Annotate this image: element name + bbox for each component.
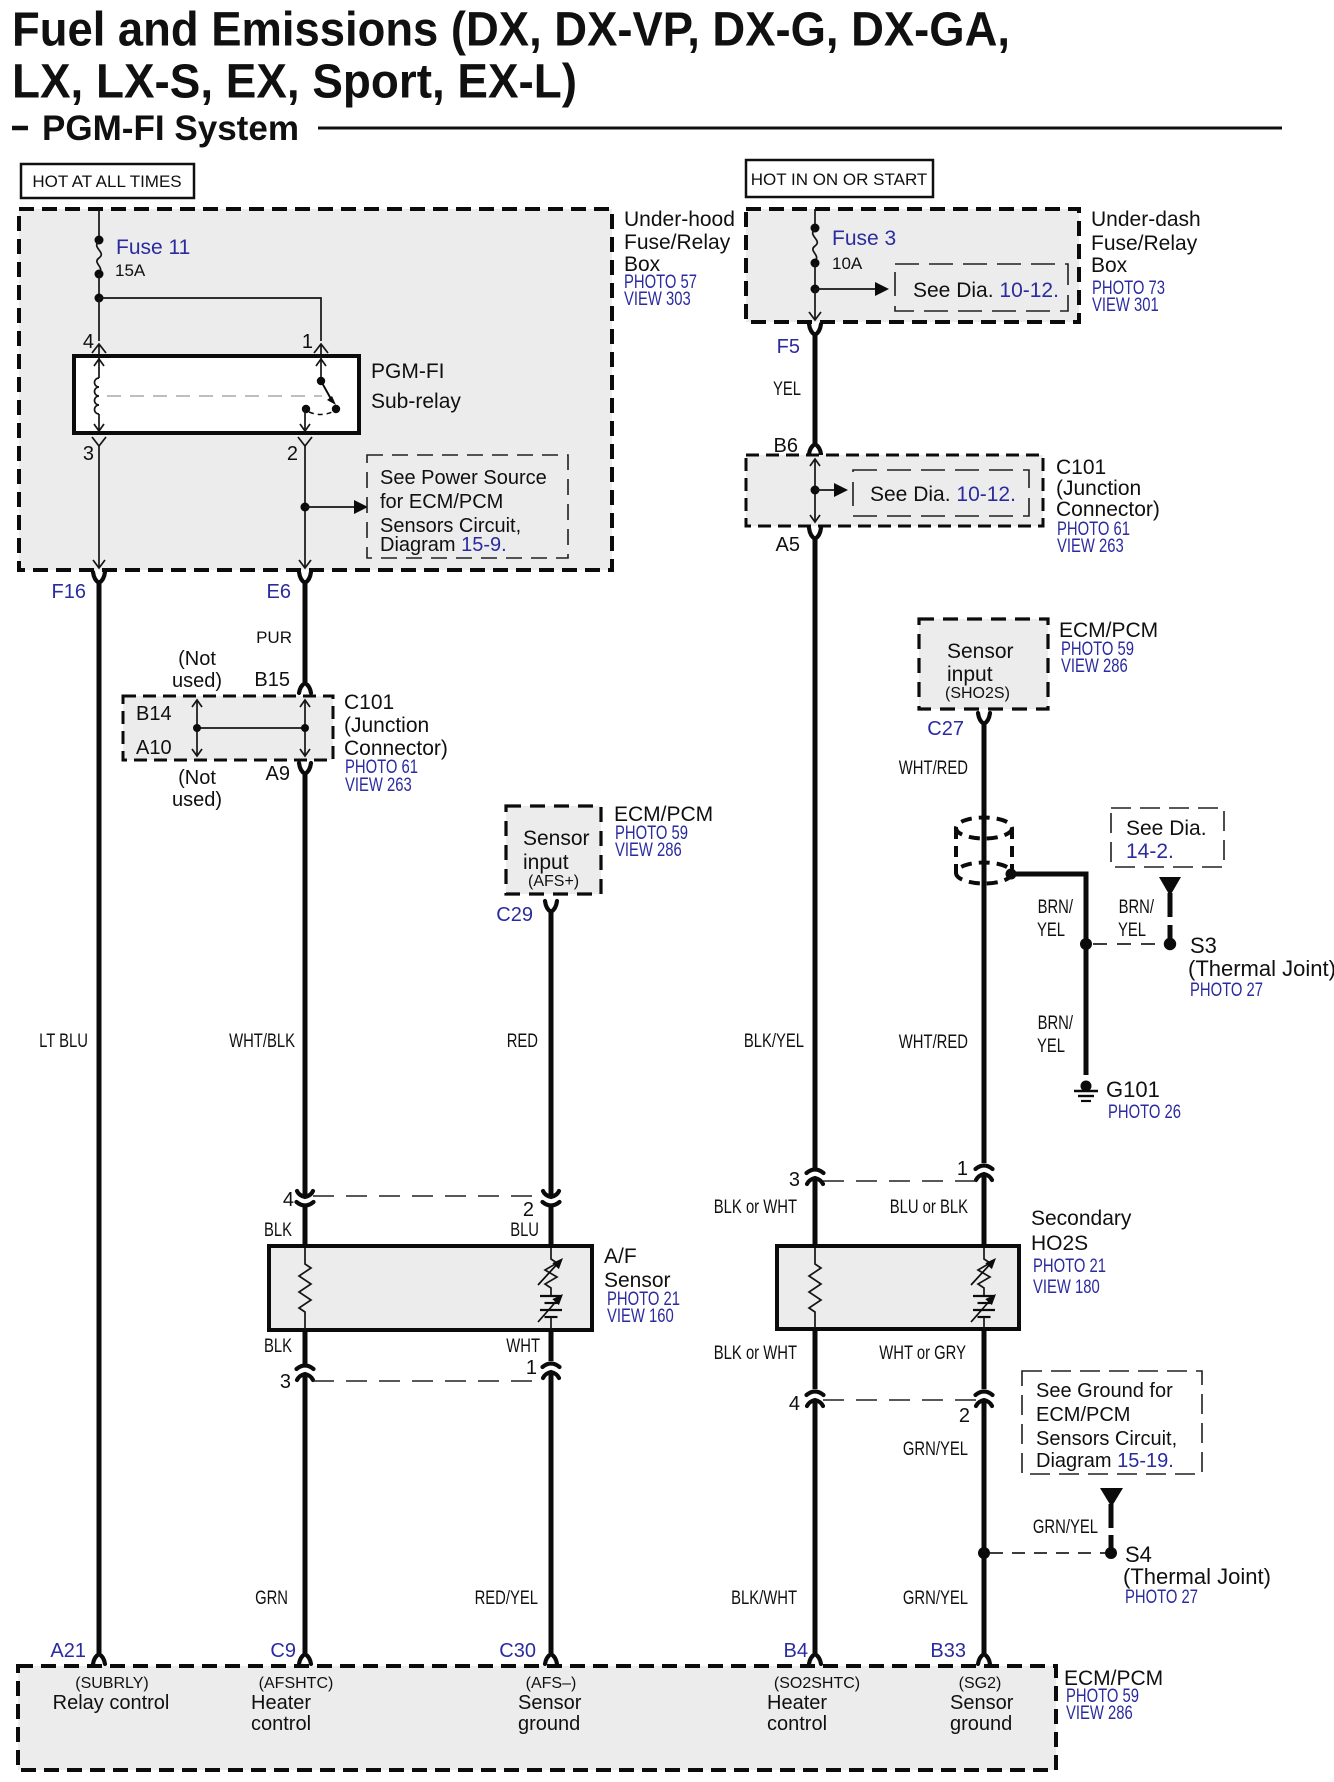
LT BLU label	[39, 1031, 88, 1052]
svg-text:Diagram 15-19.: Diagram 15-19.	[1036, 1450, 1174, 1472]
svg-text:Box: Box	[1091, 254, 1128, 277]
wire A/F pin1 below box	[549, 1330, 554, 1361]
svg-text:BLK or WHT: BLK or WHT	[714, 1343, 798, 1364]
ECM/PCM sensor input AFS+ box	[506, 806, 601, 894]
junction connector C101 left box	[123, 696, 333, 760]
svg-text:(AFS–): (AFS–)	[526, 1675, 577, 1692]
svg-text:3: 3	[280, 1371, 291, 1393]
connector B15 cap	[299, 683, 311, 693]
wire pin4 into A/F box	[303, 1205, 308, 1250]
svg-text:GRN/YEL: GRN/YEL	[1033, 1517, 1098, 1538]
F5 label	[777, 336, 800, 358]
connector A21 cap	[93, 1654, 105, 1664]
connector A9 cap	[299, 763, 311, 774]
svg-text:Fuse/Relay: Fuse/Relay	[624, 231, 731, 254]
relay coil	[94, 356, 104, 431]
svg-text:PHOTO 27: PHOTO 27	[1125, 1587, 1198, 1608]
svg-text:BRN/: BRN/	[1119, 897, 1155, 918]
svg-text:See Power Source: See Power Source	[380, 467, 547, 489]
connector pair A/F pin 3	[297, 1366, 314, 1381]
connector pair HO2S pin 2	[976, 1392, 993, 1407]
C101 right label	[1056, 456, 1160, 557]
wire pin2 into A/F box	[549, 1205, 554, 1250]
node branch to pin 1	[95, 294, 104, 303]
BLK or WHT label top	[714, 1197, 798, 1218]
svg-text:Sensor: Sensor	[950, 1692, 1014, 1714]
arrow to see power source	[305, 500, 368, 514]
pin AFSHTC heater control	[251, 1675, 333, 1735]
svg-text:Sub-relay: Sub-relay	[371, 390, 461, 413]
svg-text:RED/YEL: RED/YEL	[475, 1588, 538, 1609]
node S4 left	[978, 1547, 990, 1559]
A9 label	[266, 763, 290, 785]
wire from box top to fuse 3	[814, 209, 816, 228]
wire C27 to noise capacitor (WHT/RED)	[982, 724, 987, 818]
WHT/RED label lower	[899, 1032, 968, 1053]
wire pin3 to C9 (GRN)	[303, 1375, 308, 1654]
connector A5 cap	[809, 528, 821, 539]
svg-text:B4: B4	[784, 1640, 808, 1662]
connector pair HO2S pin 1	[976, 1166, 993, 1181]
G101 label	[1106, 1077, 1181, 1123]
BLU or BLK label	[890, 1197, 969, 1218]
node fuse3 bottom	[811, 259, 820, 268]
A/F pin 2 label	[523, 1199, 534, 1221]
junction connector C101 right box	[746, 455, 1043, 526]
relay linkage dashed	[107, 395, 322, 397]
A/F sensor box	[269, 1246, 592, 1330]
dashed link pins 4-2	[313, 1195, 543, 1197]
svg-text:WHT/BLK: WHT/BLK	[229, 1031, 295, 1052]
svg-text:See Ground for: See Ground for	[1036, 1380, 1173, 1402]
svg-text:VIEW 286: VIEW 286	[615, 840, 682, 861]
node S4 right	[1105, 1547, 1117, 1559]
S3 stub wire	[1168, 893, 1173, 939]
title line 2	[12, 56, 577, 109]
ECM/PCM AFS+ label	[614, 803, 713, 861]
svg-text:Sensors Circuit,: Sensors Circuit,	[1036, 1428, 1177, 1450]
node see-dia tap	[811, 285, 820, 294]
svg-text:1: 1	[957, 1158, 968, 1180]
svg-text:LX, LX-S, EX, Sport, EX-L): LX, LX-S, EX, Sport, EX-L)	[12, 56, 577, 109]
not used label top	[172, 648, 222, 692]
svg-text:A/F: A/F	[604, 1245, 637, 1268]
svg-text:(Thermal Joint): (Thermal Joint)	[1188, 956, 1334, 981]
svg-text:F16: F16	[52, 581, 86, 603]
pin 2 connector caret	[298, 437, 312, 446]
svg-text:A21: A21	[50, 1640, 86, 1662]
S3 thermal joint dashed link	[1093, 943, 1163, 945]
S4 label	[1123, 1542, 1271, 1608]
see power source note box	[367, 455, 568, 558]
svg-text:1: 1	[526, 1357, 537, 1379]
C29 label	[496, 904, 533, 926]
connector B33 cap	[978, 1654, 990, 1664]
HOT IN ON OR START label box	[746, 160, 933, 197]
svg-text:Secondary: Secondary	[1031, 1207, 1132, 1230]
B15 label	[254, 669, 290, 691]
svg-text:Diagram 15-9.: Diagram 15-9.	[380, 534, 507, 556]
svg-text:G101: G101	[1106, 1077, 1160, 1102]
connector F5 cap	[809, 324, 821, 335]
fuse F3	[813, 229, 818, 261]
pin 3 label	[83, 443, 94, 465]
C9 label	[270, 1640, 296, 1662]
pin AFS- sensor ground	[518, 1675, 582, 1735]
svg-text:C101: C101	[344, 691, 394, 714]
dashed link HO2S pins 3-1	[823, 1180, 976, 1182]
wire branch down to relay pin 4	[98, 298, 100, 341]
svg-text:C30: C30	[499, 1640, 536, 1662]
BLK label pin3	[264, 1336, 292, 1357]
wire through cylinder down to HO2S pin 1	[982, 818, 987, 1163]
ECM/PCM SHO2S label	[1059, 619, 1158, 677]
wire A9 to A/F pin 4 (WHT/BLK)	[303, 774, 308, 1196]
svg-text:BRN/: BRN/	[1038, 1013, 1074, 1034]
BLK/WHT label	[731, 1588, 797, 1609]
dashed link HO2S pins 4-2	[823, 1399, 976, 1401]
svg-text:HO2S: HO2S	[1031, 1232, 1088, 1255]
svg-text:BLU or BLK: BLU or BLK	[890, 1197, 969, 1218]
node cylinder tap	[1006, 869, 1017, 880]
svg-text:(Thermal Joint): (Thermal Joint)	[1123, 1564, 1271, 1589]
svg-text:(SHO2S): (SHO2S)	[945, 685, 1010, 702]
RED label	[507, 1031, 538, 1052]
svg-text:input: input	[947, 663, 993, 686]
svg-text:WHT/RED: WHT/RED	[899, 1032, 968, 1053]
svg-text:WHT or GRY: WHT or GRY	[879, 1343, 966, 1364]
svg-text:F5: F5	[777, 336, 800, 358]
HO2S pin 3 label	[789, 1169, 800, 1191]
BRN/YEL label right of S3	[1118, 897, 1155, 941]
wire A5 to HO2S pin 3 (BLK/YEL)	[813, 539, 818, 1168]
B4 label	[784, 1640, 808, 1662]
wire pin1 to C30 (RED/YEL)	[549, 1373, 554, 1654]
secondary HO2S label	[1031, 1207, 1132, 1298]
svg-text:E6: E6	[267, 581, 291, 603]
connector F16 cap	[93, 572, 105, 583]
svg-text:PHOTO 21: PHOTO 21	[1033, 1256, 1106, 1277]
node C101 right tap	[811, 486, 820, 495]
subtitle PGM-FI System	[12, 109, 1282, 148]
svg-text:(Not: (Not	[178, 648, 216, 670]
svg-text:used): used)	[172, 670, 222, 692]
svg-text:YEL: YEL	[1118, 920, 1146, 941]
svg-text:Connector): Connector)	[1056, 498, 1160, 521]
svg-text:WHT/RED: WHT/RED	[899, 758, 968, 779]
svg-text:ECM/PCM: ECM/PCM	[1036, 1404, 1130, 1426]
wire from box top to fuse 11	[98, 209, 100, 241]
svg-text:Fuse 3: Fuse 3	[832, 227, 896, 250]
svg-text:input: input	[523, 851, 569, 874]
GRN/YEL label upper	[903, 1439, 968, 1460]
svg-text:C27: C27	[927, 718, 964, 740]
wire F5 to B6 (YEL)	[813, 335, 818, 444]
see dia 14-2 note box	[1111, 808, 1224, 867]
B14 label	[136, 703, 172, 725]
pin 1 connector caret	[314, 344, 328, 356]
pin 4 label	[83, 331, 94, 353]
A/F pin 3 label	[280, 1371, 291, 1393]
see dia 10-12 note box upper	[895, 264, 1068, 311]
A/F sensing element (variable resistor)	[538, 1248, 563, 1329]
node see-power-source tap	[301, 503, 310, 512]
svg-text:(Junction: (Junction	[1056, 477, 1141, 500]
svg-text:ground: ground	[950, 1713, 1012, 1735]
pin 2 label	[287, 443, 298, 465]
svg-text:Fuse/Relay: Fuse/Relay	[1091, 232, 1198, 255]
under-hood fuse/relay box	[19, 209, 612, 570]
see ground note box	[1022, 1371, 1202, 1474]
svg-text:A9: A9	[266, 763, 290, 785]
svg-text:RED: RED	[507, 1031, 538, 1052]
arrow to see dia 10-12 lower	[815, 483, 848, 497]
node fuse11 top	[95, 236, 104, 245]
BLK/YEL label	[744, 1031, 804, 1052]
svg-text:YEL: YEL	[773, 379, 801, 400]
YEL label	[773, 379, 801, 400]
ground G101	[1074, 1081, 1098, 1102]
svg-text:Sensor: Sensor	[523, 827, 590, 850]
svg-text:LT BLU: LT BLU	[39, 1031, 88, 1052]
C101 left internal arrow B15-A9	[300, 700, 310, 756]
relay switch	[300, 356, 340, 431]
ECM/PCM bottom label	[1064, 1667, 1163, 1724]
A/F pin 4 label	[283, 1189, 294, 1211]
see dia 10-12 note box lower	[853, 470, 1029, 516]
svg-text:for ECM/PCM: for ECM/PCM	[380, 491, 503, 513]
C101 left label	[344, 691, 448, 796]
connector B6 cap	[809, 444, 821, 454]
svg-text:14-2.: 14-2.	[1126, 840, 1174, 863]
connector C30 cap	[545, 1654, 557, 1664]
S4 thermal joint dashed link	[990, 1552, 1105, 1554]
B6 label	[774, 435, 798, 457]
svg-text:BLK/WHT: BLK/WHT	[731, 1588, 797, 1609]
svg-text:See Dia. 10-12.: See Dia. 10-12.	[913, 279, 1059, 302]
svg-text:C101: C101	[1056, 456, 1106, 479]
svg-text:(AFSHTC): (AFSHTC)	[259, 1675, 334, 1692]
S3 arrow triangle	[1159, 877, 1181, 896]
svg-text:Relay control: Relay control	[53, 1692, 170, 1714]
F16 label	[52, 581, 86, 603]
svg-text:PHOTO 27: PHOTO 27	[1190, 980, 1263, 1001]
arrow to see dia 10-12 upper	[815, 282, 889, 296]
wire tap to S3 branch	[1011, 874, 1086, 944]
wire fuse3 to tap node	[814, 263, 816, 289]
wire HO2S pin3 into box	[813, 1179, 818, 1250]
svg-text:GRN/YEL: GRN/YEL	[903, 1588, 968, 1609]
fuse 11 value labels	[115, 236, 190, 280]
wire E6 to B15 (PUR)	[303, 583, 308, 682]
svg-text:VIEW 180: VIEW 180	[1033, 1277, 1100, 1298]
svg-text:VIEW 301: VIEW 301	[1092, 295, 1159, 316]
connector pair HO2S pin 3	[807, 1170, 824, 1185]
svg-text:4: 4	[789, 1393, 800, 1415]
svg-text:VIEW 303: VIEW 303	[624, 289, 691, 310]
HO2S pin 2 label	[959, 1405, 970, 1427]
HO2S pin 1 label	[957, 1158, 968, 1180]
connector pair A/F pin 4	[297, 1191, 314, 1206]
svg-text:used): used)	[172, 789, 222, 811]
wire HO2S pin1 into box	[982, 1175, 987, 1250]
HO2S sensing element (variable resistor)	[971, 1248, 996, 1329]
BLU label pin2	[510, 1220, 539, 1241]
B33 label	[930, 1640, 966, 1662]
dashed link pins 3-1	[313, 1380, 543, 1382]
svg-text:Fuel and Emissions (DX, DX-VP,: Fuel and Emissions (DX, DX-VP, DX-G, DX-…	[12, 4, 1010, 57]
node S3 left	[1080, 938, 1092, 950]
C101 left internal bus wire	[193, 724, 309, 732]
svg-text:WHT: WHT	[506, 1336, 540, 1357]
fuse 3 value labels	[832, 227, 896, 273]
wire tap to box bottom	[809, 289, 821, 320]
svg-text:B33: B33	[930, 1640, 966, 1662]
RED/YEL label	[475, 1588, 538, 1609]
wire pin 3 down to box bottom	[93, 446, 105, 568]
BRN/YEL label lower	[1037, 1013, 1074, 1057]
title line 1	[12, 4, 1010, 57]
svg-text:15A: 15A	[115, 261, 146, 280]
svg-text:PHOTO 26: PHOTO 26	[1108, 1102, 1181, 1123]
svg-text:VIEW 286: VIEW 286	[1061, 656, 1128, 677]
svg-text:Fuse 11: Fuse 11	[116, 236, 190, 259]
svg-text:See Dia. 10-12.: See Dia. 10-12.	[870, 483, 1016, 506]
connector C29 cap	[545, 901, 557, 912]
wire S3 to G101 (BRN/YEL)	[1084, 944, 1089, 1075]
svg-text:HOT AT ALL TIMES: HOT AT ALL TIMES	[32, 172, 181, 191]
HO2S heater resistor	[809, 1248, 821, 1328]
not used label bottom	[172, 767, 222, 811]
svg-text:S3: S3	[1190, 933, 1217, 958]
S4 stub wire	[1109, 1504, 1114, 1549]
svg-text:VIEW 160: VIEW 160	[607, 1306, 674, 1327]
svg-text:PGM-FI: PGM-FI	[371, 360, 445, 383]
pin SO2SHTC heater control	[767, 1675, 860, 1735]
svg-text:C29: C29	[496, 904, 533, 926]
svg-text:VIEW 263: VIEW 263	[345, 775, 412, 796]
WHT/RED label upper	[899, 758, 968, 779]
node fuse3 top	[811, 224, 820, 233]
under-dash box label	[1091, 208, 1201, 316]
C101 right internal arrow	[810, 459, 820, 522]
ECM/PCM bottom box	[18, 1666, 1056, 1770]
svg-text:A10: A10	[136, 737, 172, 759]
connector pair A/F pin 1	[543, 1364, 560, 1379]
svg-text:4: 4	[83, 331, 94, 353]
svg-text:control: control	[767, 1713, 827, 1735]
connector pair HO2S pin 4	[807, 1392, 824, 1407]
secondary HO2S box	[777, 1246, 1019, 1329]
svg-text:Under-dash: Under-dash	[1091, 208, 1201, 231]
svg-text:Sensor: Sensor	[947, 640, 1014, 663]
GRN/YEL label at S4	[1033, 1517, 1098, 1538]
HOT AT ALL TIMES label box	[21, 164, 194, 198]
svg-text:GRN/YEL: GRN/YEL	[903, 1439, 968, 1460]
svg-text:Heater: Heater	[251, 1692, 311, 1714]
svg-text:YEL: YEL	[1037, 1036, 1065, 1057]
node S3 right	[1164, 938, 1176, 950]
connector B4 cap	[809, 1654, 821, 1664]
svg-text:VIEW 286: VIEW 286	[1066, 1703, 1133, 1724]
GRN/YEL label lower	[903, 1588, 968, 1609]
svg-text:BLU: BLU	[510, 1220, 539, 1241]
BLK or WHT label bottom	[714, 1343, 798, 1364]
svg-text:4: 4	[283, 1189, 294, 1211]
BRN/YEL label left of S3	[1037, 897, 1074, 941]
wire HO2S pin2 below box	[982, 1329, 987, 1389]
svg-text:HOT IN ON OR START: HOT IN ON OR START	[751, 170, 928, 189]
svg-text:BLK/YEL: BLK/YEL	[744, 1031, 804, 1052]
svg-text:(SO2SHTC): (SO2SHTC)	[774, 1675, 860, 1692]
svg-text:(Junction: (Junction	[344, 714, 429, 737]
svg-text:PGM-FI System: PGM-FI System	[42, 109, 299, 148]
A/F pin 1 label	[526, 1357, 537, 1379]
wire pin 2 down to box bottom	[299, 446, 311, 568]
A/F heater resistor	[299, 1248, 311, 1329]
svg-text:control: control	[251, 1713, 311, 1735]
pin 3 connector caret	[92, 437, 106, 446]
svg-text:Sensor: Sensor	[518, 1692, 582, 1714]
PUR label	[256, 628, 292, 647]
svg-text:A5: A5	[776, 534, 800, 556]
svg-text:B15: B15	[254, 669, 290, 691]
WHT label pin1	[506, 1336, 540, 1357]
connector C27 cap	[978, 713, 990, 724]
svg-text:BRN/: BRN/	[1038, 897, 1074, 918]
fuse F11	[97, 241, 102, 273]
wire A/F pin3 below box	[303, 1330, 308, 1364]
svg-text:GRN: GRN	[255, 1588, 288, 1609]
svg-text:10A: 10A	[832, 254, 863, 273]
ECM/PCM sensor input SHO2S box	[919, 619, 1048, 709]
shield cylinder	[956, 818, 1012, 884]
under-dash fuse/relay box	[746, 209, 1079, 322]
relay U1 PGM-FI Sub-relay box	[74, 356, 359, 433]
S4 arrow triangle	[1100, 1488, 1123, 1507]
C101 left internal arrow B14-A10	[192, 700, 202, 756]
wire fuse to branch node	[98, 274, 100, 298]
pin 4 connector caret	[92, 344, 106, 356]
connector pair A/F pin 2	[543, 1191, 560, 1206]
svg-text:Under-hood: Under-hood	[624, 208, 735, 231]
A21 label	[50, 1640, 86, 1662]
svg-text:B14: B14	[136, 703, 172, 725]
pin SUBRLY relay control	[53, 1675, 170, 1714]
svg-text:(AFS+): (AFS+)	[528, 873, 579, 890]
svg-text:1: 1	[302, 331, 313, 353]
wire pin2 to B33 (GRN/YEL)	[982, 1400, 987, 1654]
under-hood box label	[624, 208, 735, 310]
svg-text:PUR: PUR	[256, 628, 292, 647]
E6 label	[267, 581, 291, 603]
svg-text:C9: C9	[270, 1640, 296, 1662]
svg-text:YEL: YEL	[1037, 920, 1065, 941]
BLK label pin4	[264, 1220, 292, 1241]
svg-text:3: 3	[83, 443, 94, 465]
svg-text:BLK: BLK	[264, 1336, 292, 1357]
A/F sensor label	[604, 1245, 680, 1327]
connector E6 cap	[299, 572, 311, 583]
svg-text:2: 2	[523, 1199, 534, 1221]
svg-text:2: 2	[959, 1405, 970, 1427]
WHT/BLK label	[229, 1031, 295, 1052]
node fuse11 bottom	[95, 270, 104, 279]
pin SG2 sensor ground	[950, 1675, 1014, 1735]
wire HO2S pin4 below box	[813, 1329, 818, 1389]
svg-text:3: 3	[789, 1169, 800, 1191]
S3 label	[1188, 933, 1334, 1001]
